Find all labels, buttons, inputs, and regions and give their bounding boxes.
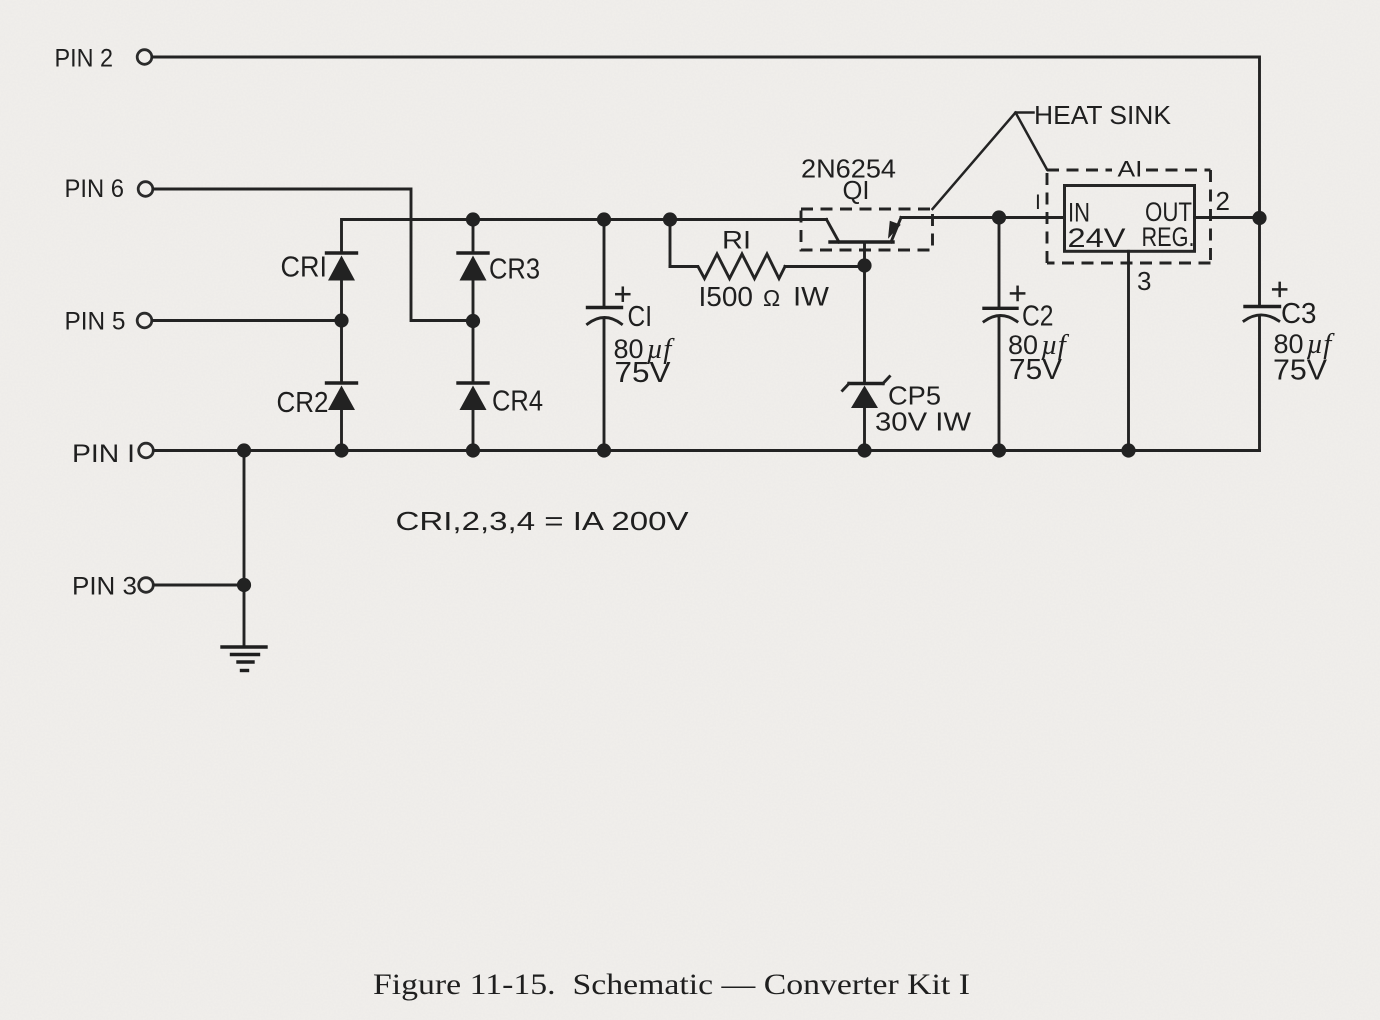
svg-text:75V: 75V (1273, 355, 1328, 387)
svg-text:75V: 75V (1009, 354, 1063, 386)
wire C1 bottom lead (603, 318, 606, 451)
junction R1/Q1 base (857, 258, 871, 272)
svg-text:24V: 24V (1068, 223, 1126, 253)
svg-text:AI: AI (1118, 157, 1143, 182)
regulator A1 dashed outline (1047, 170, 1211, 263)
svg-text:PIN I: PIN I (72, 440, 135, 468)
junction R1 top (663, 212, 677, 226)
junction zener bottom (857, 443, 871, 457)
svg-text:PIN 5: PIN 5 (65, 308, 126, 336)
junction C1 bottom (597, 443, 611, 457)
C1 polarity + (616, 288, 629, 301)
wire PIN5 to CR1/CR2 node (153, 319, 342, 322)
junction C1 top (597, 212, 611, 226)
svg-text:75V: 75V (615, 357, 672, 389)
svg-text:CI: CI (628, 301, 653, 333)
node PIN 2 terminal circle (137, 50, 152, 65)
wire CR3/CR4 mid leads (472, 281, 475, 383)
junction A1 OUT / C3 (1252, 211, 1266, 225)
junction C2 bottom (992, 443, 1006, 457)
svg-text:IW: IW (793, 282, 830, 312)
svg-text:Ω: Ω (763, 285, 780, 311)
wire C3 top lead (1258, 218, 1261, 306)
svg-text:I500: I500 (699, 281, 754, 312)
wire CR3 top lead (472, 220, 475, 253)
wire ground stem (243, 451, 246, 648)
junction C2 top (992, 210, 1006, 224)
junction PIN3/ground stem (237, 443, 251, 457)
zener diode CP5 (843, 377, 890, 409)
svg-text:RI: RI (722, 227, 751, 255)
svg-text:CR4: CR4 (492, 386, 543, 418)
wire Q1 emitter to A1 IN (901, 216, 1065, 219)
svg-text:CR2: CR2 (277, 387, 329, 419)
diode CR2 (327, 383, 357, 410)
svg-text:REG.: REG. (1142, 222, 1195, 252)
svg-text:CRI,2,3,4 = IA 200V: CRI,2,3,4 = IA 200V (396, 506, 690, 536)
junction pin3 bottom (1121, 443, 1135, 457)
regulator A1 box (1065, 186, 1195, 252)
wire top rail (corner above CR1 to Q1 collector) (342, 220, 827, 253)
node PIN 5 terminal circle (137, 313, 152, 328)
capacitor C3 (1244, 307, 1280, 321)
wire C3 bottom lead (1258, 316, 1261, 451)
junction CR3 top (466, 212, 480, 226)
C3 polarity + (1273, 283, 1286, 296)
svg-text:2: 2 (1216, 186, 1230, 216)
wire Q1 base lead (863, 242, 866, 266)
wire A1 pin3 to bottom rail (1127, 251, 1130, 450)
ground (222, 647, 266, 671)
label R1 value 1500 ohm 1W (699, 281, 830, 312)
wire R1 right lead (785, 265, 865, 268)
svg-text:I: I (1035, 191, 1041, 214)
wire A1 OUT to right edge (1195, 216, 1260, 219)
node PIN 6 terminal circle (138, 182, 153, 197)
diode CR4 (458, 383, 488, 410)
wire C2 bottom lead (998, 317, 1001, 451)
wire PIN3 to ground stem (154, 584, 244, 587)
svg-text:QI: QI (843, 175, 870, 205)
C2 polarity + (1011, 287, 1024, 300)
svg-text:C2: C2 (1022, 301, 1054, 333)
wire zener top lead (863, 266, 866, 384)
node PIN 1 terminal circle (139, 443, 154, 458)
node PIN 3 terminal circle (139, 578, 154, 593)
transistor Q1 dashed outline (801, 209, 933, 250)
svg-text:30V IW: 30V IW (875, 407, 972, 437)
svg-text:C3: C3 (1281, 298, 1317, 330)
svg-text:PIN 6: PIN 6 (65, 175, 125, 203)
svg-text:HEAT SINK: HEAT SINK (1034, 100, 1172, 130)
junction CR4 bottom (466, 443, 480, 457)
wire C2 top lead (998, 218, 1001, 308)
junction CR2 bottom (334, 443, 348, 457)
svg-text:3: 3 (1137, 266, 1151, 296)
junction CR1/CR2 node (334, 313, 348, 327)
junction PIN3 (237, 578, 251, 592)
wire CR2 bottom lead (340, 410, 343, 451)
capacitor C2 (984, 308, 1017, 321)
capacitor C1 (588, 308, 622, 325)
svg-text:PIN 2: PIN 2 (55, 45, 114, 73)
heat sink pointer lines (933, 113, 1048, 210)
wire zener bottom lead (863, 408, 866, 451)
svg-text:CRI: CRI (281, 252, 328, 284)
wire PIN2 top rail to right edge (153, 57, 1260, 218)
wire R1 left lead (669, 220, 672, 267)
svg-text:Figure 11-15. Schematic — Con: Figure 11-15. Schematic — Converter Kit … (373, 968, 970, 1001)
junction CR3/CR4 node (466, 314, 480, 328)
svg-text:PIN 3: PIN 3 (72, 573, 137, 601)
wire bottom rail (154, 449, 1260, 452)
wire CR1/CR2 mid leads (340, 281, 343, 383)
wire PIN6 to CR3/CR4 node (154, 189, 468, 321)
wire CR4 bottom lead (472, 410, 475, 451)
svg-text:CR3: CR3 (489, 254, 540, 286)
resistor R1 (670, 254, 785, 279)
transistor Q1 (827, 218, 902, 243)
diode CR3 (458, 253, 488, 281)
diode CR1 (327, 253, 357, 281)
wire C1 top lead (603, 220, 606, 308)
